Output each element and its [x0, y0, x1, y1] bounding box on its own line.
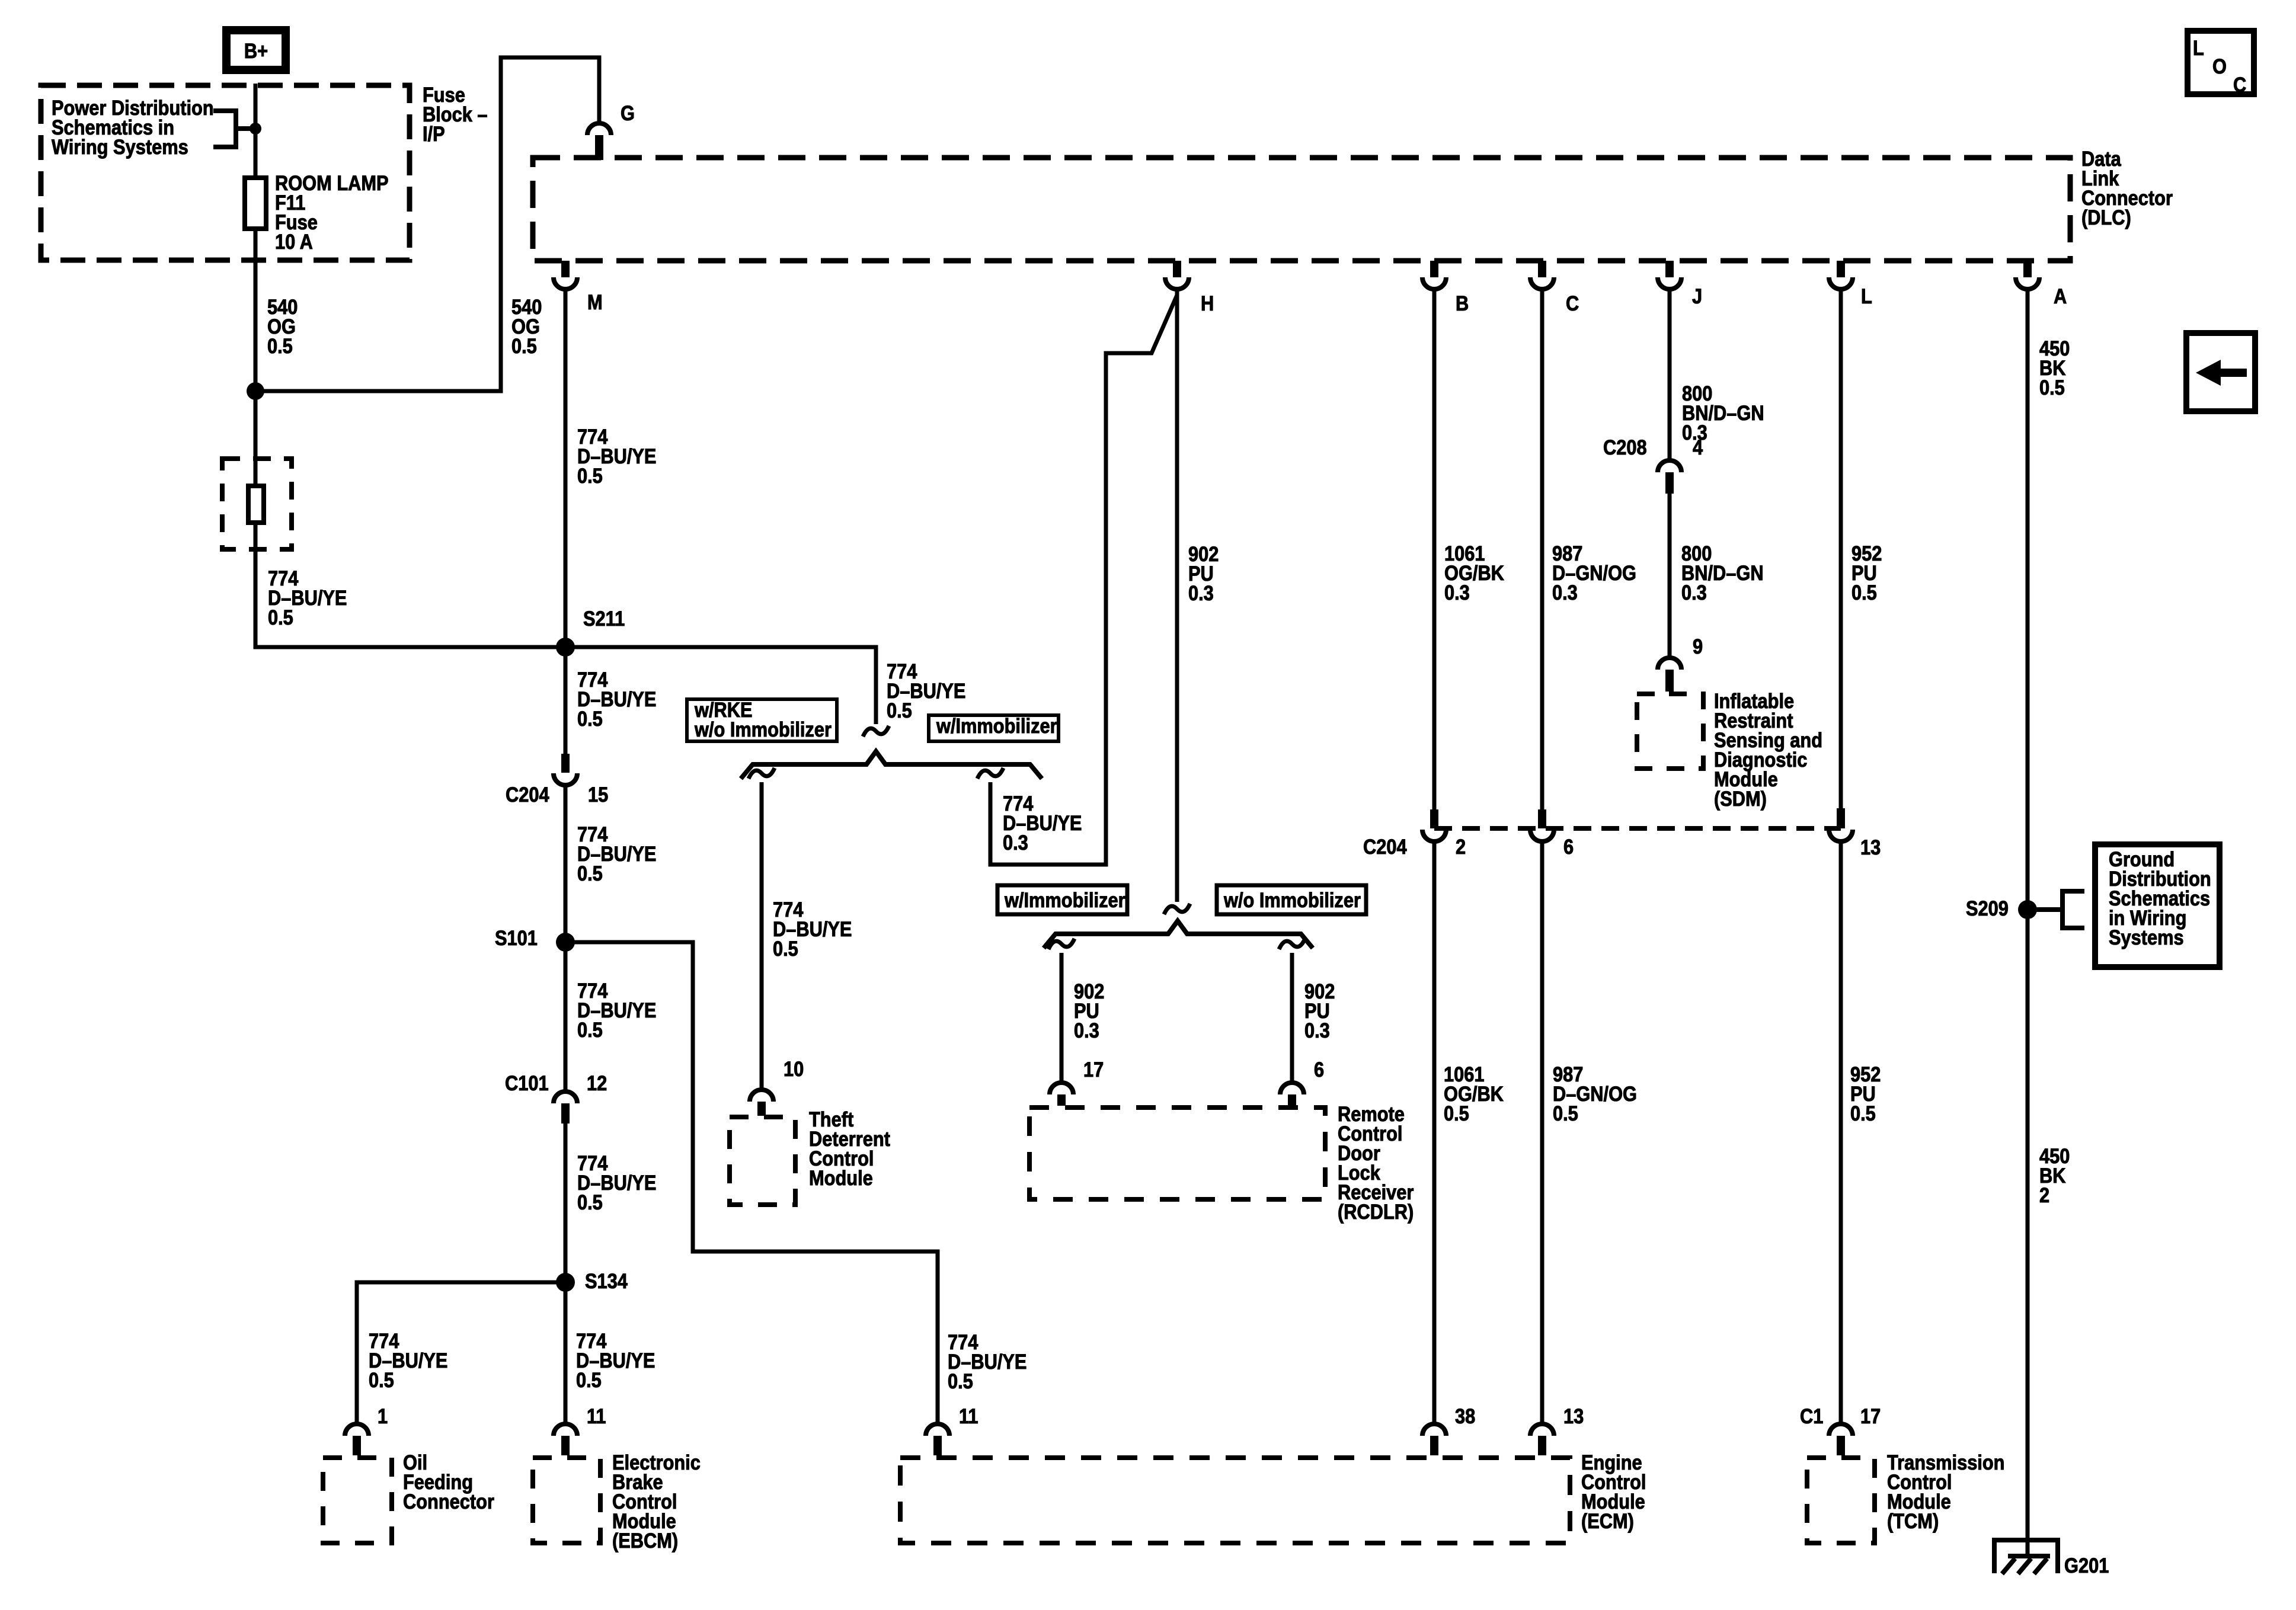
svg-text:(SDM): (SDM)	[1714, 787, 1767, 810]
option squiggle on H wire	[1164, 904, 1190, 914]
wire 800 from DLC pin J down to C208	[1668, 289, 1672, 462]
svg-text:0.5: 0.5	[577, 1190, 603, 1214]
wire 952 from C204 down to TCM pin C1-17	[1839, 843, 1843, 1425]
wire w/Immobilizer branch to H wire	[990, 295, 1177, 865]
label 774 D-BU/YE 0.5 below S211	[577, 668, 656, 730]
label 774 D-BU/YE 0.5 to oil feeding connector	[369, 1329, 447, 1391]
connector pin 17 of RCDLR	[1050, 1058, 1104, 1106]
option brace upper	[741, 751, 1042, 779]
wire 540 OG branch right and up to DLC pin G	[255, 57, 599, 391]
ground distribution note box	[2095, 844, 2220, 967]
connector pin 11 of EBCM	[554, 1404, 606, 1455]
svg-text:0.3: 0.3	[1188, 581, 1214, 604]
label 774 D-BU/YE 0.5 to EBCM	[576, 1329, 655, 1391]
navigation arrow box	[2186, 333, 2255, 411]
svg-text:Connector: Connector	[403, 1490, 494, 1513]
wire S101 branch right down right to ECM pin 11	[565, 942, 938, 1425]
TCM dashed box	[1807, 1458, 1875, 1543]
wire 450 from DLC pin A down to ground G201	[2026, 289, 2030, 1556]
svg-text:A: A	[2054, 284, 2067, 308]
label 987 D-GN/OG 0.5	[1553, 1062, 1637, 1125]
label 902 PU 0.3 pin 17	[1074, 980, 1104, 1042]
in-line connector C101 pin 12	[505, 1071, 607, 1124]
wire 987 from C204 down to ECM pin 13	[1540, 843, 1544, 1425]
wire w/RKE branch down to theft deterrent pin 10	[760, 782, 764, 1091]
wire C101 down to S134	[564, 1124, 568, 1282]
label 450 BK 0.5	[2039, 337, 2070, 399]
wire w/o Immobilizer to RCDLR pin 6	[1290, 953, 1294, 1084]
svg-text:0.5: 0.5	[773, 937, 798, 960]
svg-text:10 A: 10 A	[275, 230, 313, 253]
label Fuse Block I/P	[423, 83, 488, 145]
svg-text:0.3: 0.3	[1304, 1019, 1330, 1042]
wire 800 from C208 down to SDM pin 9	[1668, 494, 1672, 659]
connector pin A of DLC	[2016, 261, 2067, 308]
wire w/Immobilizer to RCDLR pin 17	[1060, 953, 1064, 1084]
label 774 D-BU/YE 0.5 option branch	[887, 660, 965, 722]
wire S134 down to EBCM pin 11	[564, 1282, 568, 1425]
label Data Link Connector (DLC)	[2081, 147, 2173, 229]
svg-text:Systems: Systems	[2109, 926, 2184, 949]
svg-text:0.5: 0.5	[577, 862, 603, 885]
note bracket	[213, 111, 236, 147]
svg-text:0.5: 0.5	[948, 1369, 973, 1393]
svg-text:C204: C204	[506, 783, 549, 806]
svg-text:(TCM): (TCM)	[1887, 1509, 1939, 1532]
svg-text:0.5: 0.5	[267, 334, 293, 357]
label 774 D-BU/YE 0.5 theft branch	[773, 898, 852, 960]
option squiggle on S211 branch	[863, 726, 889, 737]
LOC legend box	[2188, 31, 2254, 96]
squiggle left end of upper brace	[749, 768, 775, 779]
svg-text:0.5: 0.5	[887, 699, 912, 722]
svg-text:S101: S101	[495, 926, 538, 949]
ground G201 symbol	[1994, 1540, 2109, 1577]
svg-text:6: 6	[1314, 1058, 1324, 1081]
svg-text:L: L	[2193, 36, 2204, 59]
svg-text:(EBCM): (EBCM)	[612, 1529, 678, 1552]
svg-text:0.5: 0.5	[577, 707, 603, 730]
connector pin 9 of SDM	[1658, 635, 1703, 692]
svg-text:0.5: 0.5	[511, 334, 537, 357]
svg-text:w/Immobilizer: w/Immobilizer	[1004, 888, 1125, 911]
label 1061 OG/BK 0.5	[1444, 1062, 1504, 1125]
option brace lower	[1044, 921, 1313, 948]
svg-text:0.5: 0.5	[1444, 1102, 1469, 1125]
RCDLR dashed box	[1029, 1108, 1325, 1199]
svg-text:0.5: 0.5	[369, 1368, 394, 1391]
svg-text:G201: G201	[2064, 1554, 2109, 1577]
connector pin C1 17 of TCM	[1800, 1404, 1881, 1455]
in-line connector C204 pin 15	[506, 754, 608, 806]
SDM dashed box	[1637, 694, 1703, 769]
svg-text:17: 17	[1860, 1404, 1881, 1427]
in-line fuse element	[248, 486, 264, 523]
label 902 PU 0.3 pin 6	[1304, 980, 1335, 1042]
label 774 D-BU/YE 0.5 to ECM	[948, 1330, 1027, 1393]
svg-text:0.3: 0.3	[1552, 581, 1578, 604]
fuse F11	[245, 178, 266, 229]
option label box w/RKE w/o Immobilizer	[687, 698, 837, 741]
svg-text:M: M	[587, 290, 603, 313]
label Inflatable Restraint Sensing and Diagnostic Module (SDM)	[1714, 689, 1822, 810]
svg-text:C204: C204	[1363, 835, 1407, 858]
svg-text:C: C	[2233, 73, 2246, 96]
splice S211	[556, 607, 625, 657]
svg-text:0.5: 0.5	[1553, 1102, 1578, 1125]
junction dot 540 OG split	[247, 382, 264, 400]
battery feed B+ terminal	[226, 30, 286, 70]
svg-text:J: J	[1692, 284, 1702, 308]
option label box w/o Immobilizer	[1217, 885, 1366, 914]
svg-text:O: O	[2212, 55, 2227, 78]
wire 952 from DLC pin L down to C204	[1839, 289, 1843, 808]
connector pin C of DLC	[1530, 261, 1579, 315]
connector pin 38 of ECM	[1422, 1404, 1475, 1455]
connector C204 pin 6	[1530, 809, 1574, 858]
oil feeding connector dashed box	[323, 1458, 392, 1543]
label Oil Feeding Connector	[403, 1451, 494, 1513]
wire S211 option branch right and down to option brace	[565, 647, 876, 724]
label Remote Control Door Lock Receiver (RCDLR)	[1338, 1102, 1414, 1223]
squiggle left end of lower brace	[1048, 939, 1075, 949]
wire 540 OG left branch down to in-line fuse	[254, 391, 258, 484]
label 540 OG 0.5 right	[511, 295, 542, 357]
connector pin B of DLC	[1422, 261, 1469, 315]
svg-text:(ECM): (ECM)	[1581, 1509, 1634, 1532]
in-line connector C208 pin 4	[1603, 436, 1703, 494]
svg-text:4: 4	[1693, 436, 1703, 459]
node tap dot on B+ wire	[250, 123, 261, 135]
svg-text:2: 2	[2039, 1183, 2049, 1206]
svg-text:12: 12	[587, 1071, 607, 1094]
data link connector DLC dashed box	[533, 158, 2070, 261]
label 774 D-BU/YE 0.5 below S101	[577, 979, 656, 1041]
svg-text:0.5: 0.5	[268, 606, 293, 629]
svg-text:0.3: 0.3	[1444, 581, 1470, 604]
label 952 PU 0.5 lower	[1850, 1062, 1881, 1125]
label ROOM LAMP F11 Fuse 10 A	[275, 171, 389, 253]
label Engine Control Module (ECM)	[1581, 1451, 1646, 1532]
svg-text:1: 1	[378, 1404, 388, 1427]
svg-text:9: 9	[1693, 635, 1703, 658]
connector pin 1 of oil feeding connector	[345, 1404, 388, 1455]
connector pin 10 of theft deterrent control module	[750, 1057, 804, 1116]
label 800 BN/D-GN 0.3 upper	[1682, 382, 1764, 444]
svg-text:S134: S134	[585, 1269, 628, 1292]
label 774 D-BU/YE 0.3 immobilizer branch	[1003, 792, 1082, 854]
label 774 D-BU/YE 0.5 below in-line fuse	[268, 566, 347, 629]
squiggle right end of upper brace	[977, 768, 1003, 779]
option label box w/Immobilizer upper	[929, 714, 1059, 741]
svg-text:H: H	[1201, 292, 1214, 315]
svg-text:13: 13	[1860, 836, 1881, 859]
wire S134 branch left to oil feeding connector pin 1	[357, 1282, 565, 1425]
theft deterrent control module dashed box	[730, 1117, 795, 1205]
connector pin 13 of ECM	[1530, 1404, 1584, 1455]
connector pin 6 of RCDLR	[1280, 1058, 1324, 1106]
label 902 PU 0.3 below H	[1188, 542, 1219, 604]
wire S101 down to C101 pin 12	[564, 942, 568, 1093]
note Power Distribution Schematics in Wiring Systems	[52, 96, 214, 158]
fuse block I/P dashed box	[41, 85, 410, 260]
svg-text:B: B	[1456, 292, 1469, 315]
label 1061 OG/BK 0.3	[1444, 542, 1504, 604]
svg-text:Wiring Systems: Wiring Systems	[52, 135, 188, 158]
svg-text:0.3: 0.3	[1074, 1019, 1099, 1042]
splice S209	[1966, 897, 2037, 920]
svg-text:11: 11	[587, 1404, 606, 1427]
connector pin H of DLC	[1165, 261, 1214, 315]
svg-text:17: 17	[1083, 1058, 1104, 1081]
svg-text:(RCDLR): (RCDLR)	[1338, 1200, 1414, 1223]
connector pin L of DLC	[1829, 261, 1872, 308]
svg-text:S209: S209	[1966, 897, 2009, 920]
label Transmission Control Module (TCM)	[1887, 1451, 2004, 1532]
label 774 D-BU/YE 0.5 below M	[577, 425, 656, 487]
svg-text:0.3: 0.3	[1003, 831, 1028, 854]
svg-text:C1: C1	[1800, 1404, 1823, 1427]
connector line C204 dashed	[1363, 828, 1841, 858]
wire 987 from DLC pin C down to C204	[1540, 289, 1544, 809]
svg-text:C208: C208	[1603, 436, 1647, 459]
option label box w/Immobilizer lower	[997, 885, 1127, 914]
EBCM dashed box	[533, 1458, 600, 1543]
connector pin G of DLC	[587, 101, 635, 160]
svg-text:w/Immobilizer: w/Immobilizer	[936, 714, 1057, 737]
svg-text:C: C	[1566, 292, 1579, 315]
connector C204 pin 2	[1422, 809, 1466, 858]
svg-text:(DLC): (DLC)	[2081, 206, 2131, 229]
label 952 PU 0.5 upper	[1851, 542, 1882, 604]
wire fuse F11 output down to splice dot	[254, 229, 258, 391]
wire fuse output down then right to S211	[255, 525, 565, 647]
svg-text:B+: B+	[244, 39, 268, 62]
label 540 OG 0.5 left	[267, 295, 298, 357]
connector pin 11 of ECM	[926, 1404, 978, 1455]
splice S101	[495, 926, 575, 952]
svg-text:38: 38	[1455, 1404, 1475, 1427]
svg-text:I/P: I/P	[423, 122, 445, 145]
label 987 D-GN/OG 0.3	[1552, 542, 1636, 604]
wire S211 down to C204 pin 15	[564, 647, 568, 754]
svg-text:2: 2	[1456, 835, 1466, 858]
svg-text:0.5: 0.5	[1850, 1102, 1876, 1125]
wire 774 from DLC pin M down to S211	[564, 289, 568, 647]
svg-text:G: G	[621, 101, 635, 124]
ECM dashed box	[900, 1458, 1570, 1543]
svg-text:w/o Immobilizer: w/o Immobilizer	[694, 718, 832, 741]
svg-text:10: 10	[784, 1057, 804, 1080]
svg-text:w/o Immobilizer: w/o Immobilizer	[1223, 888, 1361, 911]
svg-text:11: 11	[959, 1404, 978, 1427]
connector pin M of DLC	[554, 261, 603, 313]
svg-text:6: 6	[1563, 835, 1574, 858]
svg-text:0.5: 0.5	[2039, 376, 2065, 399]
svg-text:0.5: 0.5	[577, 1018, 603, 1041]
svg-text:0.3: 0.3	[1681, 581, 1707, 604]
label Electronic Brake Control Module (EBCM)	[612, 1451, 701, 1552]
svg-text:0.5: 0.5	[577, 464, 603, 487]
in-line fuse dashed box	[222, 459, 292, 549]
svg-text:S211: S211	[583, 607, 625, 630]
wire 902 from DLC pin H down to lower option brace	[1175, 289, 1179, 902]
svg-text:15: 15	[588, 783, 608, 806]
label 800 BN/D-GN 0.3 lower	[1681, 542, 1764, 604]
wire 1061 from DLC pin B down to C204	[1432, 289, 1437, 809]
svg-text:Module: Module	[809, 1166, 873, 1189]
svg-text:C101: C101	[505, 1071, 549, 1094]
connector C204 pin 13	[1829, 808, 1881, 859]
splice S134	[556, 1269, 628, 1292]
wire B+ feed down to fuse F11	[254, 84, 258, 178]
svg-text:0.5: 0.5	[1851, 581, 1877, 604]
wire 1061 from C204 down to ECM pin 38	[1432, 843, 1437, 1425]
label 450 BK 2	[2039, 1144, 2070, 1206]
svg-text:0.5: 0.5	[576, 1368, 602, 1391]
ground note bracket	[2028, 891, 2084, 928]
connector pin J of DLC	[1658, 261, 1702, 308]
label 774 D-BU/YE 0.5 below C101	[577, 1151, 656, 1214]
label Theft Deterrent Control Module	[809, 1108, 890, 1189]
wire C204 to S101	[564, 786, 568, 942]
svg-text:L: L	[1861, 284, 1872, 308]
label 774 D-BU/YE 0.5 below C204	[577, 822, 656, 885]
svg-text:13: 13	[1563, 1404, 1584, 1427]
squiggle right end of lower brace	[1279, 939, 1305, 949]
